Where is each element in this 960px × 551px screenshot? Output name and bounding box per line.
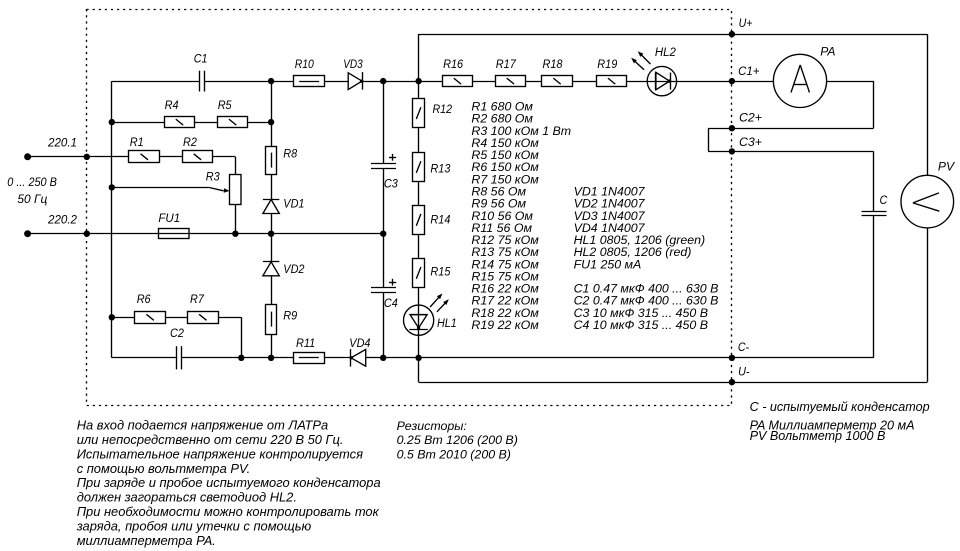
svg-text:C2+: C2+: [739, 111, 762, 125]
milliammeter PA: [773, 44, 835, 107]
wire: 220.2 row to VD2: [271, 234, 273, 262]
svg-text:R8: R8: [283, 146, 297, 160]
svg-text:C3: C3: [384, 177, 398, 191]
LED HL2: [631, 45, 676, 96]
svg-text:R17: R17: [496, 57, 517, 71]
resistor R9: [266, 305, 298, 335]
junction: bus at R6 row: [109, 314, 115, 320]
wire: PA to C2+ row: [827, 81, 874, 128]
svg-text:заряда, пробоя или утечки с по: заряда, пробоя или утечки с помощью: [76, 519, 312, 534]
wire: R5 to R8 column: [248, 122, 271, 124]
wire: VD1 to 220.2 row: [271, 214, 273, 234]
junction: 220.2 at enclosure border: [84, 231, 90, 237]
wire: VD4 to test capacitor column (C- row): [366, 357, 874, 359]
junction: C3/C4 column at 220.2 row: [380, 231, 386, 237]
svg-text:R16: R16: [443, 57, 463, 71]
input terminal 220.2: [24, 213, 77, 238]
junction: VD1/VD2 column at 220.2 row: [268, 231, 274, 237]
svg-text:с помощью вольтметра PV.: с помощью вольтметра PV.: [77, 461, 251, 476]
resistor R15: [413, 259, 451, 288]
wire: 220.1 row to R1: [28, 156, 130, 158]
capacitor C3 (polarized): [371, 154, 398, 191]
wire: C2 to R11: [182, 357, 293, 359]
wire: left vertical bus: [111, 81, 113, 358]
svg-text:PV Вольтметр 1000 В: PV Вольтметр 1000 В: [750, 429, 886, 443]
resistor R16: [443, 57, 473, 87]
svg-text:должен загораться светодиод HL: должен загораться светодиод HL2.: [77, 490, 297, 505]
capacitor C1: [194, 51, 208, 91]
svg-text:R2: R2: [183, 135, 197, 149]
svg-text:R19 22 кОм: R19 22 кОм: [471, 318, 539, 332]
component values list column 2: [574, 185, 719, 333]
svg-text:C1+: C1+: [738, 64, 759, 78]
svg-text:VD1: VD1: [283, 197, 304, 211]
LED HL1: [404, 293, 457, 335]
junction: 220.1 at enclosure border: [84, 154, 90, 160]
wire: R4 to R5: [195, 122, 218, 124]
resistor R10: [294, 57, 325, 87]
wire: C1 to R10: [204, 81, 294, 83]
junction: C1/R4R5/R8 column node: [268, 78, 274, 84]
diode VD2: [263, 262, 305, 277]
svg-text:PV: PV: [938, 160, 955, 174]
resistor R3 (rheostat): [206, 169, 241, 204]
resistor type note (bottom middle): [397, 419, 518, 461]
svg-text:R13: R13: [430, 162, 450, 176]
svg-text:U+: U+: [739, 16, 753, 30]
input terminal 220.1: [24, 135, 77, 160]
svg-text:VD2: VD2: [283, 262, 304, 276]
resistor R19: [597, 57, 627, 87]
svg-text:R11: R11: [296, 336, 315, 350]
wire: C4 to C- row: [383, 292, 385, 358]
wire: R18 to R19: [572, 81, 596, 83]
svg-text:R4: R4: [165, 98, 179, 112]
svg-text:C4: C4: [384, 296, 398, 310]
junction: R3 at 220.2 row: [232, 231, 238, 237]
resistor R12: [413, 99, 453, 128]
junction: U- terminal: [729, 364, 750, 385]
junction: R9 at C- row: [268, 355, 274, 361]
resistor R18: [542, 57, 573, 87]
svg-text:C-: C-: [738, 340, 749, 354]
svg-text:FU1 250 мА: FU1 250 мА: [574, 257, 642, 271]
svg-text:VD3: VD3: [343, 57, 363, 71]
svg-text:C: C: [880, 193, 888, 207]
junction: R5/R8 column: [268, 119, 274, 125]
svg-text:C2: C2: [170, 326, 184, 340]
junction: U+ terminal: [729, 16, 753, 37]
wire: node to R8 top: [271, 81, 273, 146]
svg-text:VD4: VD4: [349, 336, 370, 350]
svg-text:0.25 Вт 1206 (200 В): 0.25 Вт 1206 (200 В): [397, 433, 518, 447]
svg-text:C1: C1: [194, 51, 208, 65]
wire: R9 to C- row: [271, 334, 273, 358]
junction: rectifier output node (C3 top): [380, 78, 386, 84]
resistor R17: [496, 57, 526, 87]
wire: R1 to R2: [159, 156, 182, 158]
wire: U+ riser and node to R12: [418, 34, 420, 98]
junction: bus at wiper row: [109, 184, 115, 190]
svg-text:R7: R7: [190, 292, 205, 306]
svg-text:R1: R1: [130, 135, 144, 149]
svg-text:FU1: FU1: [158, 211, 180, 225]
resistor R14: [413, 206, 451, 235]
svg-text:или непосредственно от сети 22: или непосредственно от сети 220 В 50 Гц.: [77, 432, 344, 447]
component values list column 1: [471, 100, 571, 333]
wire: C2+ row: [708, 128, 873, 130]
diode VD3: [343, 57, 363, 89]
wire: R6 to R7: [165, 317, 188, 319]
svg-text:Резисторы:: Резисторы:: [397, 419, 467, 433]
resistor R7: [188, 292, 219, 324]
junction: C3+ terminal: [729, 135, 762, 155]
capacitor C4 (polarized): [371, 279, 398, 310]
svg-text:220.1: 220.1: [47, 135, 77, 149]
input voltage label 0...250 V 50 Hz: [7, 175, 57, 206]
svg-text:миллиамперметра PA.: миллиамперметра PA.: [77, 533, 216, 548]
wire: R19 through HL2 to C1+ terminal and PA: [627, 81, 773, 83]
wire: C- to U- jog and U- row to PV: [419, 228, 928, 383]
diode VD1: [263, 197, 305, 214]
svg-text:R6: R6: [137, 292, 151, 306]
junction: bus at R4 row: [109, 119, 115, 125]
wire: U+ rail: [419, 34, 928, 175]
wire: bus top to C1: [112, 81, 200, 83]
svg-text:PA: PA: [820, 44, 835, 58]
svg-text:C4 10 мкФ 315 ... 450 В: C4 10 мкФ 315 ... 450 В: [574, 318, 708, 332]
fuse FU1: [158, 211, 189, 238]
junction: R7 branch at C2 row: [238, 355, 244, 361]
capacitor C (device under test): [862, 193, 888, 215]
wire: R12 to R13: [418, 128, 420, 153]
wire: VD3 to R16: [362, 81, 442, 83]
wire: FU1 to C3/C4 column (220.2 row): [189, 233, 383, 235]
svg-text:220.2: 220.2: [47, 213, 77, 227]
svg-text:R3: R3: [206, 169, 220, 183]
svg-text:0.5 Вт 2010 (200 В): 0.5 Вт 2010 (200 В): [397, 447, 511, 461]
wire: bus to R6: [112, 317, 135, 319]
wire: C to C- row: [873, 216, 875, 358]
junction: C4 bottom at C- row: [380, 355, 386, 361]
svg-text:При необходимости можно контро: При необходимости можно контролировать т…: [77, 504, 380, 519]
svg-text:0 ... 250 В: 0 ... 250 В: [7, 175, 57, 189]
notes text block (bottom left): [76, 417, 381, 548]
wire: R15 through HL1 to C- row: [418, 288, 420, 358]
svg-text:C - испытуемый конденсатор: C - испытуемый конденсатор: [750, 400, 930, 414]
wire: R16 to R17: [473, 81, 496, 83]
wire: R3 bottom to 220.2 row: [235, 205, 237, 234]
junction: C2+ terminal: [729, 111, 762, 132]
enclosure dashed border: [87, 10, 732, 406]
wire: R7 to C2 row: [218, 317, 242, 358]
wire: VD2 to R9: [271, 276, 273, 305]
junction: U+ riser / R12 node: [415, 78, 421, 84]
svg-text:R9: R9: [283, 308, 297, 322]
svg-text:На вход подается напряжение от: На вход подается напряжение от ЛАТРа: [77, 417, 329, 432]
diode VD4: [349, 336, 370, 367]
wire: rectifier node to C3: [383, 81, 385, 163]
voltmeter PV: [901, 160, 955, 228]
wire: R3 wiper arm from bus: [112, 187, 230, 192]
wire: jog C2+ to C3+: [708, 128, 710, 151]
wire: R8 to VD1: [271, 174, 273, 199]
wire: R17 to R18: [526, 81, 542, 83]
wire: C3 to 220.2 row: [383, 168, 385, 234]
wire: 220.2 row to FU1: [28, 233, 159, 235]
wire: C3+ row to test capacitor: [708, 151, 873, 211]
resistor R11: [294, 336, 325, 364]
resistor R5: [218, 98, 248, 128]
resistor R1: [129, 135, 160, 163]
svg-text:HL1: HL1: [437, 316, 457, 330]
resistor R2: [183, 135, 213, 163]
svg-text:R5: R5: [218, 98, 232, 112]
svg-text:При заряде и пробое испытуемог: При заряде и пробое испытуемого конденса…: [77, 475, 381, 490]
svg-text:R19: R19: [597, 57, 617, 71]
svg-text:50 Гц: 50 Гц: [17, 192, 47, 206]
svg-text:R18: R18: [543, 57, 563, 71]
capacitor C2: [170, 326, 184, 369]
svg-text:Испытательное напряжение контр: Испытательное напряжение контролируется: [77, 446, 363, 461]
wire: R10 to VD3: [325, 81, 349, 83]
wire: R13 to R14: [418, 181, 420, 205]
legend text (bottom right): [750, 400, 930, 443]
svg-text:R10: R10: [295, 57, 314, 71]
junction: C- terminal: [729, 340, 749, 361]
svg-text:R14: R14: [430, 212, 450, 226]
wire: bus bottom to C2: [112, 357, 177, 359]
resistor R8: [266, 146, 298, 174]
wire: bus to R4: [112, 122, 164, 124]
svg-text:HL2: HL2: [655, 45, 676, 59]
resistor R4: [165, 98, 195, 128]
wire: R11 to VD4: [324, 357, 351, 359]
svg-text:U-: U-: [738, 364, 749, 378]
svg-text:C3+: C3+: [739, 135, 762, 149]
junction: HL1 at C- row: [415, 355, 421, 361]
wire: R14 to R15: [418, 234, 420, 258]
resistor R6: [135, 292, 166, 324]
wire: 220.2 row to C4: [383, 234, 385, 288]
svg-text:R12: R12: [433, 102, 453, 116]
wire: R2 to R3 top: [213, 157, 236, 175]
resistor R13: [413, 153, 451, 182]
junction: C1+ terminal: [729, 64, 760, 84]
svg-text:R15: R15: [430, 265, 450, 279]
